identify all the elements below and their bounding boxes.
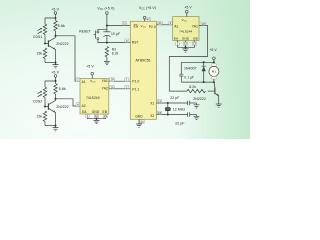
resistor R3 8.2k xyxy=(105,47,118,62)
svg-text:M1: M1 xyxy=(212,70,217,74)
ground U3 xyxy=(183,47,189,52)
svg-text:A2: A2 xyxy=(82,104,86,108)
capacitor C4 0.1uF xyxy=(179,74,194,82)
svg-text:2N2222: 2N2222 xyxy=(56,105,69,109)
wire U1 YA1 to P1.0 xyxy=(109,78,131,82)
svg-text:1N4007: 1N4007 xyxy=(184,67,197,71)
svg-text:19: 19 xyxy=(104,114,108,118)
power +5V sensor2 xyxy=(51,70,59,77)
svg-text:+5 V: +5 V xyxy=(51,70,59,74)
power +5V motor xyxy=(209,48,217,62)
svg-text:8.2k: 8.2k xyxy=(112,52,119,56)
wire to EA pin31 xyxy=(107,22,130,26)
U1 enable/gnd pins xyxy=(86,114,108,120)
photoresistor CDS2 xyxy=(33,87,47,104)
svg-text:A1: A1 xyxy=(82,80,86,84)
node RST junction xyxy=(106,42,108,44)
capacitor C3 33pF xyxy=(175,112,196,125)
wire CDS1 to base node xyxy=(44,35,48,45)
svg-text:A1: A1 xyxy=(174,25,178,29)
wire U1 YA2 to P1.1 xyxy=(109,85,131,89)
svg-text:18: 18 xyxy=(202,22,206,26)
svg-text:74LS240: 74LS240 xyxy=(86,96,100,100)
svg-text:5.6k: 5.6k xyxy=(58,24,65,28)
svg-text:EA: EA xyxy=(134,25,139,29)
wire +5V rail sensor2 xyxy=(45,77,57,87)
ground U2 xyxy=(136,124,142,127)
svg-text:+5 V: +5 V xyxy=(86,64,94,68)
svg-text:10: 10 xyxy=(95,114,99,118)
svg-text:19: 19 xyxy=(193,42,197,46)
svg-text:RST: RST xyxy=(132,41,139,45)
svg-text:5.6k: 5.6k xyxy=(59,87,66,91)
svg-text:CDS1: CDS1 xyxy=(33,35,42,39)
svg-text:X1: X1 xyxy=(150,101,154,105)
resistor R1 5.6k xyxy=(54,21,65,36)
ground U1 xyxy=(94,119,100,124)
motor M1 xyxy=(209,64,219,82)
svg-text:EB: EB xyxy=(193,36,197,40)
svg-text:15k: 15k xyxy=(37,51,43,55)
ground sensor1 xyxy=(53,63,59,68)
transistor Q1 2N2222 xyxy=(48,36,68,63)
wire +5V rail sensor1 xyxy=(45,14,57,24)
svg-text:20: 20 xyxy=(140,120,144,124)
resistor R6 8.2k xyxy=(187,85,214,93)
svg-text:RESET: RESET xyxy=(79,29,91,33)
wire motor bottom rail xyxy=(181,81,215,83)
svg-text:YA1: YA1 xyxy=(192,25,198,29)
svg-text:P1.0: P1.0 xyxy=(132,79,139,83)
capacitor C2 33pF xyxy=(170,96,196,105)
wire X1 xyxy=(157,99,188,104)
svg-text:15k: 15k xyxy=(37,114,43,118)
power +5V U1 xyxy=(86,64,94,78)
svg-text:12 MHz: 12 MHz xyxy=(173,107,186,111)
svg-text:16: 16 xyxy=(110,85,114,89)
svg-text:CDS2: CDS2 xyxy=(33,100,42,104)
wire U2 GND pin20 xyxy=(139,119,144,124)
wire Q2 collector to U1 A2 xyxy=(56,99,81,106)
transistor Q3 2N2222 xyxy=(193,82,219,104)
svg-text:YA2: YA2 xyxy=(102,87,108,91)
switch RESET xyxy=(79,29,107,42)
svg-text:19: 19 xyxy=(158,99,162,103)
svg-text:10: 10 xyxy=(184,42,188,46)
capacitor C1 10uF xyxy=(103,32,120,43)
resistor R2 15k xyxy=(37,48,47,63)
svg-text:EB: EB xyxy=(103,110,108,114)
svg-text:22 pF: 22 pF xyxy=(175,122,184,126)
wire X2 xyxy=(157,111,188,116)
power VCC +5V U2 xyxy=(139,6,156,22)
wire to ground sensor1 xyxy=(45,62,57,64)
svg-text:+5 V: +5 V xyxy=(209,48,217,52)
microcontroller U2 AT89C51 xyxy=(130,21,156,119)
wire Q1 collector to U1 A1 xyxy=(56,36,81,81)
svg-text:10 µF: 10 µF xyxy=(111,32,120,36)
svg-text:18: 18 xyxy=(158,111,162,115)
svg-text:GND: GND xyxy=(182,36,190,40)
svg-text:8.2k: 8.2k xyxy=(189,85,196,89)
svg-text:18: 18 xyxy=(110,78,114,82)
power VCC +5V reset xyxy=(97,6,114,14)
svg-text:+5 V: +5 V xyxy=(184,6,192,10)
node Q2 collector xyxy=(55,98,57,100)
wire motor top rail xyxy=(181,61,215,74)
svg-text:21: 21 xyxy=(158,21,162,25)
svg-text:74LS244: 74LS244 xyxy=(179,30,192,34)
ground sensor2 xyxy=(53,126,59,131)
resistor R5 15k xyxy=(37,111,47,126)
ground Q3 xyxy=(216,104,222,107)
power +5V U3 xyxy=(184,6,192,17)
svg-text:40: 40 xyxy=(147,18,151,22)
resistor R4 5.6k xyxy=(54,84,66,99)
wire to ground sensor2 xyxy=(45,125,57,127)
wire CDS2 to base node xyxy=(44,98,48,108)
U3 enable/gnd pins xyxy=(176,41,197,49)
power +5V sensor1 xyxy=(51,7,59,14)
svg-text:GND: GND xyxy=(135,114,143,118)
buffer U3 74LS244 xyxy=(173,17,199,41)
crystal Y1 12MHz xyxy=(165,103,185,115)
svg-text:GND: GND xyxy=(92,110,100,114)
diode D1 1N4007 xyxy=(184,62,206,82)
svg-text:0.1 µF: 0.1 µF xyxy=(184,75,194,79)
pin box 4 U1.A2 xyxy=(76,103,80,107)
svg-text:31: 31 xyxy=(123,22,127,26)
buffer U1 74LS240 xyxy=(80,79,109,115)
svg-text:EA: EA xyxy=(82,110,87,114)
wire VCC vertical reset xyxy=(106,14,108,32)
svg-text:AT89C51: AT89C51 xyxy=(136,58,151,62)
svg-text:22 pF: 22 pF xyxy=(170,96,179,100)
wire P2.0 to U3 A1 xyxy=(157,21,173,25)
ground C3 xyxy=(194,115,200,120)
transistor Q2 2N2222 xyxy=(48,99,68,126)
ground C2 xyxy=(194,103,200,108)
wire U3 YA1 to R6 xyxy=(169,22,207,91)
svg-text:X2: X2 xyxy=(150,114,154,118)
ground reset xyxy=(104,61,110,64)
svg-text:2N2222: 2N2222 xyxy=(56,42,69,46)
pin box 2 U1.A1 xyxy=(76,78,80,82)
svg-text:2N2222: 2N2222 xyxy=(193,97,206,101)
wire to RST pin9 xyxy=(107,39,130,43)
node Q1 collector xyxy=(55,35,57,37)
svg-text:P2.0: P2.0 xyxy=(149,25,156,29)
svg-text:P1.1: P1.1 xyxy=(132,87,139,91)
photoresistor CDS1 xyxy=(33,24,47,39)
svg-text:+5 V: +5 V xyxy=(51,7,59,11)
svg-text:YA1: YA1 xyxy=(102,79,108,83)
